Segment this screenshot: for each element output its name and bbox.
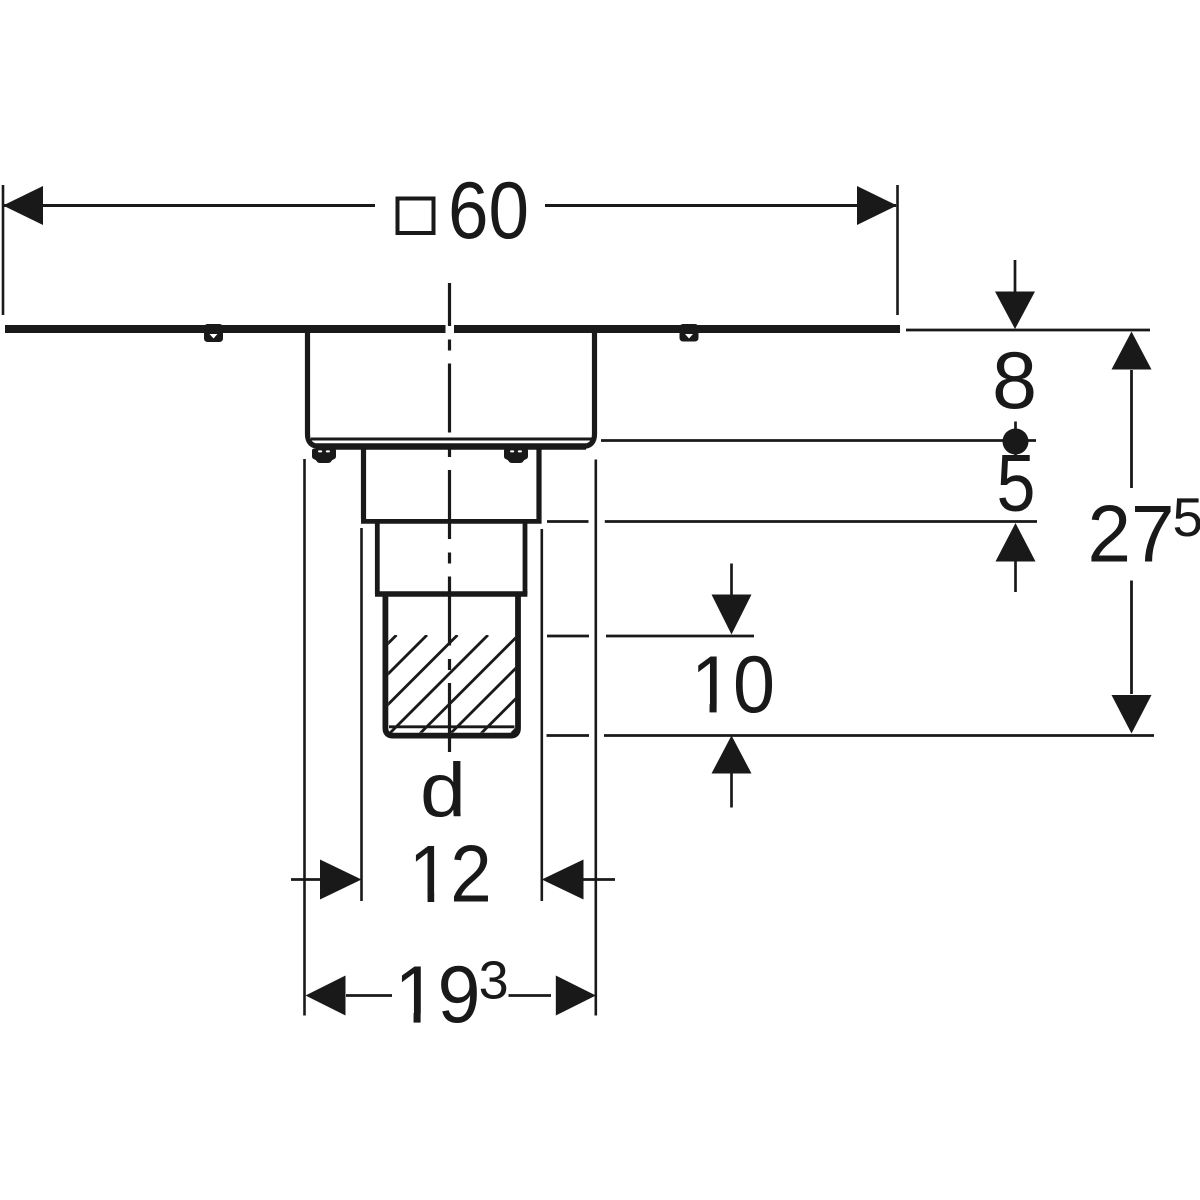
svg-text:27: 27 [1088,490,1175,580]
svg-text:10: 10 [691,640,775,730]
svg-text:60: 60 [448,166,529,256]
svg-text:12: 12 [409,830,492,920]
svg-text:8: 8 [992,336,1037,426]
svg-text:19: 19 [395,950,481,1040]
svg-text:d: d [420,748,466,833]
svg-text:5: 5 [1173,486,1200,548]
svg-text:3: 3 [479,951,509,1011]
svg-text:5: 5 [997,439,1036,529]
